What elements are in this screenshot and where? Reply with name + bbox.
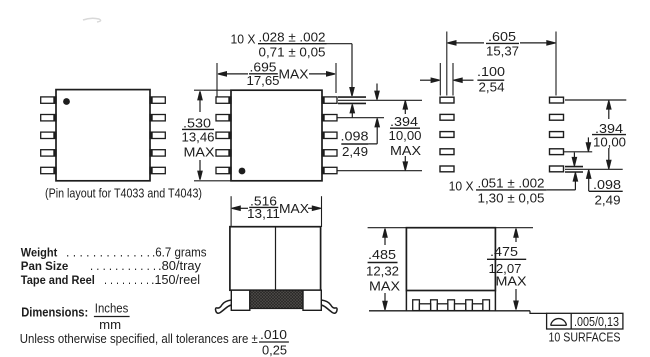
dim .516 text [247,194,309,221]
svg-text:MAX: MAX [184,145,215,160]
dim .530 extension lines [194,90,231,181]
bottom middle left terminal block [231,290,250,310]
svg-text:2,49: 2,49 [595,192,621,207]
svg-text:MAX: MAX [496,274,527,289]
svg-text:Inches: Inches [95,301,129,315]
dim .028 lower arrow [350,104,354,118]
left package body [56,90,150,181]
reference line pin row 1 (middle) [338,99,422,101]
dim .051 upper arrow [572,153,576,166]
svg-text:.485: .485 [368,247,396,262]
svg-text:Tape and Reel: Tape and Reel [21,273,95,287]
svg-text:.6.7 grams: .6.7 grams [152,245,207,259]
dim .098 (middle) upper arrow [375,84,379,100]
dim .605 arrows [448,41,556,45]
bottom middle hatched core [250,290,303,308]
label 10X .051 [449,176,545,206]
svg-text:Dimensions:: Dimensions: [21,305,88,320]
svg-text:2,49: 2,49 [342,144,368,159]
svg-text:MAX: MAX [390,143,421,158]
bottom middle right gull-wing lead [321,300,337,313]
svg-text:10,00: 10,00 [593,134,626,149]
dim .530 arrows [198,91,202,179]
middle package pin junction ticks [230,97,323,174]
svg-text:.098: .098 [593,177,621,192]
dim .695 extension lines [217,63,336,97]
scan smudge top left [83,18,101,22]
svg-text:Unless otherwise specified, al: Unless otherwise specified, all toleranc… [20,332,258,346]
svg-text:.010: .010 [260,328,287,342]
svg-text:. . . . . . . . . . . . .: . . . . . . . . . . . . . [66,245,150,259]
svg-text:10 X: 10 X [231,31,256,46]
bottom middle left gull-wing lead [216,300,232,313]
svg-text:.475: .475 [490,244,518,259]
svg-text:. . . . . . . .: . . . . . . . . [104,273,149,287]
right footprint right pad column [550,97,564,172]
dim .530 text [182,115,215,159]
svg-text:Pan Size: Pan Size [21,259,69,273]
svg-text:10,00: 10,00 [389,128,422,143]
label 10X .051 leader [547,173,578,190]
tape and reel row [21,273,200,287]
dim .098 (right) leader and lower arrow [587,170,591,191]
bottom right body [406,228,495,291]
svg-text:Weight: Weight [21,245,58,259]
dim .485 extension line [368,227,407,229]
label 10X .028 leader [327,44,355,96]
svg-text:.150/reel: .150/reel [151,273,200,287]
svg-text:17,65: 17,65 [247,73,280,88]
reference line pad row 1 (right) [565,99,626,101]
left package pins [41,97,166,174]
pin cross-section slab (right footprint, bottom) [565,167,583,172]
bottom right terminal feet [413,300,490,311]
dim .695 arrows [218,72,335,76]
baseline jog to datum box [530,311,547,314]
right footprint left pad column [440,97,454,172]
dim .475 arrows [514,229,518,310]
dim .098 (right) upper arrow [586,137,590,151]
reference line pin row 2 (middle) [337,117,384,119]
svg-text:.605: .605 [488,29,516,44]
label 10X .028 [231,29,326,59]
dim .098 (middle) leader and lower arrow [368,118,379,143]
svg-text:MAX: MAX [279,201,309,216]
dim .100 arrows [420,78,474,82]
dim .475 text [489,244,527,288]
pin cross-section slab (middle, top right) [338,97,366,103]
middle package pins [216,97,337,174]
reference line pin row 5 (middle) [337,170,422,172]
svg-text:.100: .100 [477,64,505,79]
seating plane baseline [369,310,530,312]
weight row [21,245,207,259]
dim .100 text [477,64,505,94]
bottom middle center line [275,227,277,291]
flatness datum frame [547,313,623,329]
dim .485 text [366,247,400,293]
bottom right skirt walls [406,291,495,311]
svg-text:10 X: 10 X [449,178,474,193]
svg-text:.005/0,13: .005/0,13 [574,315,619,329]
svg-text:.051 ± .002: .051 ± .002 [478,176,545,191]
reference line pad row 4 (right) [564,151,592,153]
svg-text:13,46: 13,46 [182,130,215,145]
dim .605 text [486,29,519,58]
svg-text:mm: mm [99,318,121,332]
svg-text:12,32: 12,32 [366,264,399,279]
svg-text:.028 ± .002: .028 ± .002 [259,29,326,44]
svg-text:.098: .098 [341,129,369,144]
dim .695 text [247,60,309,89]
svg-text:2,54: 2,54 [479,80,505,95]
svg-text:10 SURFACES: 10 SURFACES [549,329,621,344]
svg-text:15,37: 15,37 [486,43,519,58]
dim .475 extension line [495,227,533,229]
svg-text:0,25: 0,25 [262,344,287,357]
reference line pad row 5 (right) [565,168,623,170]
bottom middle right terminal block [303,290,321,310]
svg-text:MAX: MAX [369,278,400,293]
dim .605 extension lines [447,32,556,96]
svg-text:. . . . . . . . . . .: . . . . . . . . . . . [90,259,156,273]
bottom middle dim .516 extension lines [231,196,321,227]
dim .516 arrows [232,206,321,210]
left package pin junction ticks [55,97,151,174]
svg-text:.394: .394 [390,114,418,129]
pan size row [21,259,202,273]
dim .485 arrows [383,229,387,310]
dim .098 (middle) text [341,129,369,160]
dim .394 MAX (middle) [403,101,407,171]
svg-text:MAX: MAX [279,67,309,82]
bottom middle body [230,227,321,291]
dim .100 extension lines [440,63,453,96]
middle package body [231,90,322,181]
surface profile symbol [551,319,567,326]
svg-text:0,71 ± 0,05: 0,71 ± 0,05 [259,44,326,59]
middle package pin1 dot [239,168,246,175]
svg-text:.80/tray: .80/tray [158,259,202,273]
dim .394 (right) [607,101,611,169]
left package pin1 dot [63,98,70,105]
svg-text:1,30 ± 0,05: 1,30 ± 0,05 [478,191,545,206]
dim .098 (right) text [593,177,621,207]
svg-text:.530: .530 [183,115,211,130]
svg-text:(Pin layout for T4033 and T404: (Pin layout for T4033 and T4043) [45,186,202,200]
